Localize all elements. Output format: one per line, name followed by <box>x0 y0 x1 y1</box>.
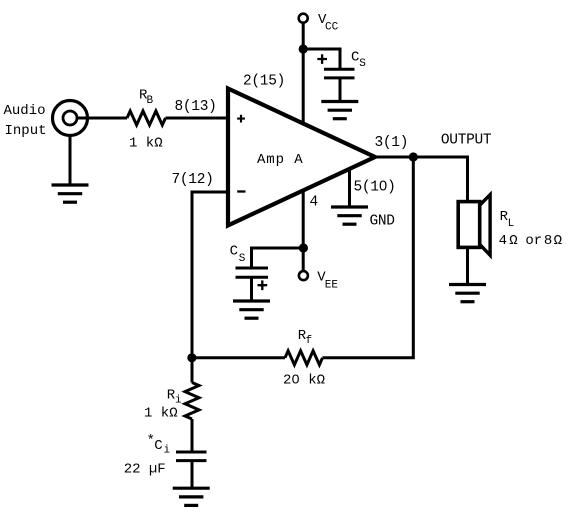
svg-text:7(12): 7(12) <box>172 172 214 188</box>
svg-text:i: i <box>164 445 171 457</box>
svg-text:5(10): 5(10) <box>354 180 396 196</box>
svg-text:4: 4 <box>310 195 318 211</box>
svg-text:Audio: Audio <box>4 103 46 119</box>
svg-text:1 kΩ: 1 kΩ <box>144 405 178 421</box>
svg-text:f: f <box>306 335 313 347</box>
svg-text:S: S <box>239 253 246 265</box>
svg-text:8: 8 <box>544 233 552 249</box>
svg-text:L: L <box>508 218 515 230</box>
svg-text:OUTPUT: OUTPUT <box>441 133 492 149</box>
svg-text:Input: Input <box>5 123 47 139</box>
svg-text:Amp A: Amp A <box>257 152 304 168</box>
svg-text:2(15): 2(15) <box>243 74 285 90</box>
svg-text:C: C <box>351 49 359 65</box>
svg-text:C: C <box>154 438 162 454</box>
svg-text:EE: EE <box>325 279 339 291</box>
svg-text:CC: CC <box>325 22 339 34</box>
svg-text:20 kΩ: 20 kΩ <box>283 373 325 389</box>
svg-text:22 µF: 22 µF <box>124 462 166 478</box>
svg-text:or: or <box>525 233 542 249</box>
svg-text:S: S <box>359 58 366 70</box>
svg-text:1 kΩ: 1 kΩ <box>129 136 163 152</box>
svg-text:3(1): 3(1) <box>375 135 409 151</box>
svg-text:C: C <box>230 244 238 260</box>
svg-text:Ω: Ω <box>509 233 517 249</box>
svg-text:GND: GND <box>370 214 395 230</box>
svg-text:Ω: Ω <box>554 233 562 249</box>
svg-text:8(13): 8(13) <box>175 99 217 115</box>
svg-text:4: 4 <box>499 233 507 249</box>
svg-text:B: B <box>147 95 154 107</box>
